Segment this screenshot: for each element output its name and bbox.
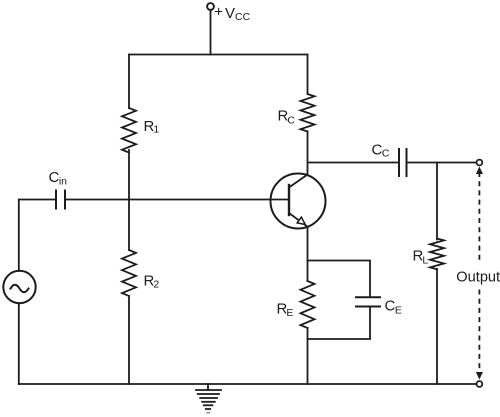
wire RC to collector node bbox=[307, 132, 309, 175]
transistor Q1 bbox=[271, 174, 326, 229]
resistor RL bbox=[430, 239, 444, 270]
wire base node to R2 bbox=[128, 200, 130, 251]
resistor R2 bbox=[122, 250, 136, 296]
wire top rail bbox=[129, 54, 308, 56]
wire top rail to RC bbox=[307, 55, 309, 95]
resistor R1 bbox=[122, 108, 136, 153]
wire bottom rail bbox=[19, 383, 477, 385]
wire R1 to base node bbox=[128, 150, 130, 200]
node output bottom terminal bbox=[477, 381, 483, 387]
wire input left segment bbox=[19, 199, 56, 201]
node output top terminal bbox=[477, 160, 483, 166]
capacitor CE bbox=[356, 297, 380, 306]
wire source top lead bbox=[18, 200, 20, 272]
wire top rail to R1 bbox=[128, 55, 130, 109]
wire Vcc stem bbox=[210, 10, 212, 55]
node Vcc terminal bbox=[207, 3, 214, 10]
wire output dashed span bbox=[478, 172, 480, 372]
svg-text:Output: Output bbox=[456, 270, 500, 286]
label Output bbox=[454, 263, 500, 289]
arrow output up bbox=[476, 167, 483, 175]
wire collector node to Cc bbox=[308, 162, 400, 164]
wire parallel top bbox=[308, 261, 371, 298]
wire R2 to bottom rail bbox=[128, 296, 130, 384]
capacitor Cin bbox=[56, 191, 65, 209]
ground bbox=[196, 384, 221, 413]
capacitor Cc bbox=[399, 149, 407, 176]
wire emitter lead bbox=[307, 227, 309, 281]
wire RE bottom lead bbox=[307, 328, 309, 384]
wire RL bottom lead bbox=[436, 269, 438, 384]
wire source bottom lead bbox=[18, 303, 20, 384]
resistor RC bbox=[301, 94, 315, 132]
ac source Vs bbox=[3, 271, 35, 303]
svg-text:+: + bbox=[214, 4, 223, 21]
wire base wire bbox=[65, 199, 289, 201]
arrow output down bbox=[476, 372, 483, 380]
wire parallel bottom bbox=[308, 307, 371, 340]
wire RL top lead bbox=[436, 163, 438, 240]
wire Cc to output terminal bbox=[407, 162, 477, 164]
resistor RE bbox=[301, 281, 315, 328]
